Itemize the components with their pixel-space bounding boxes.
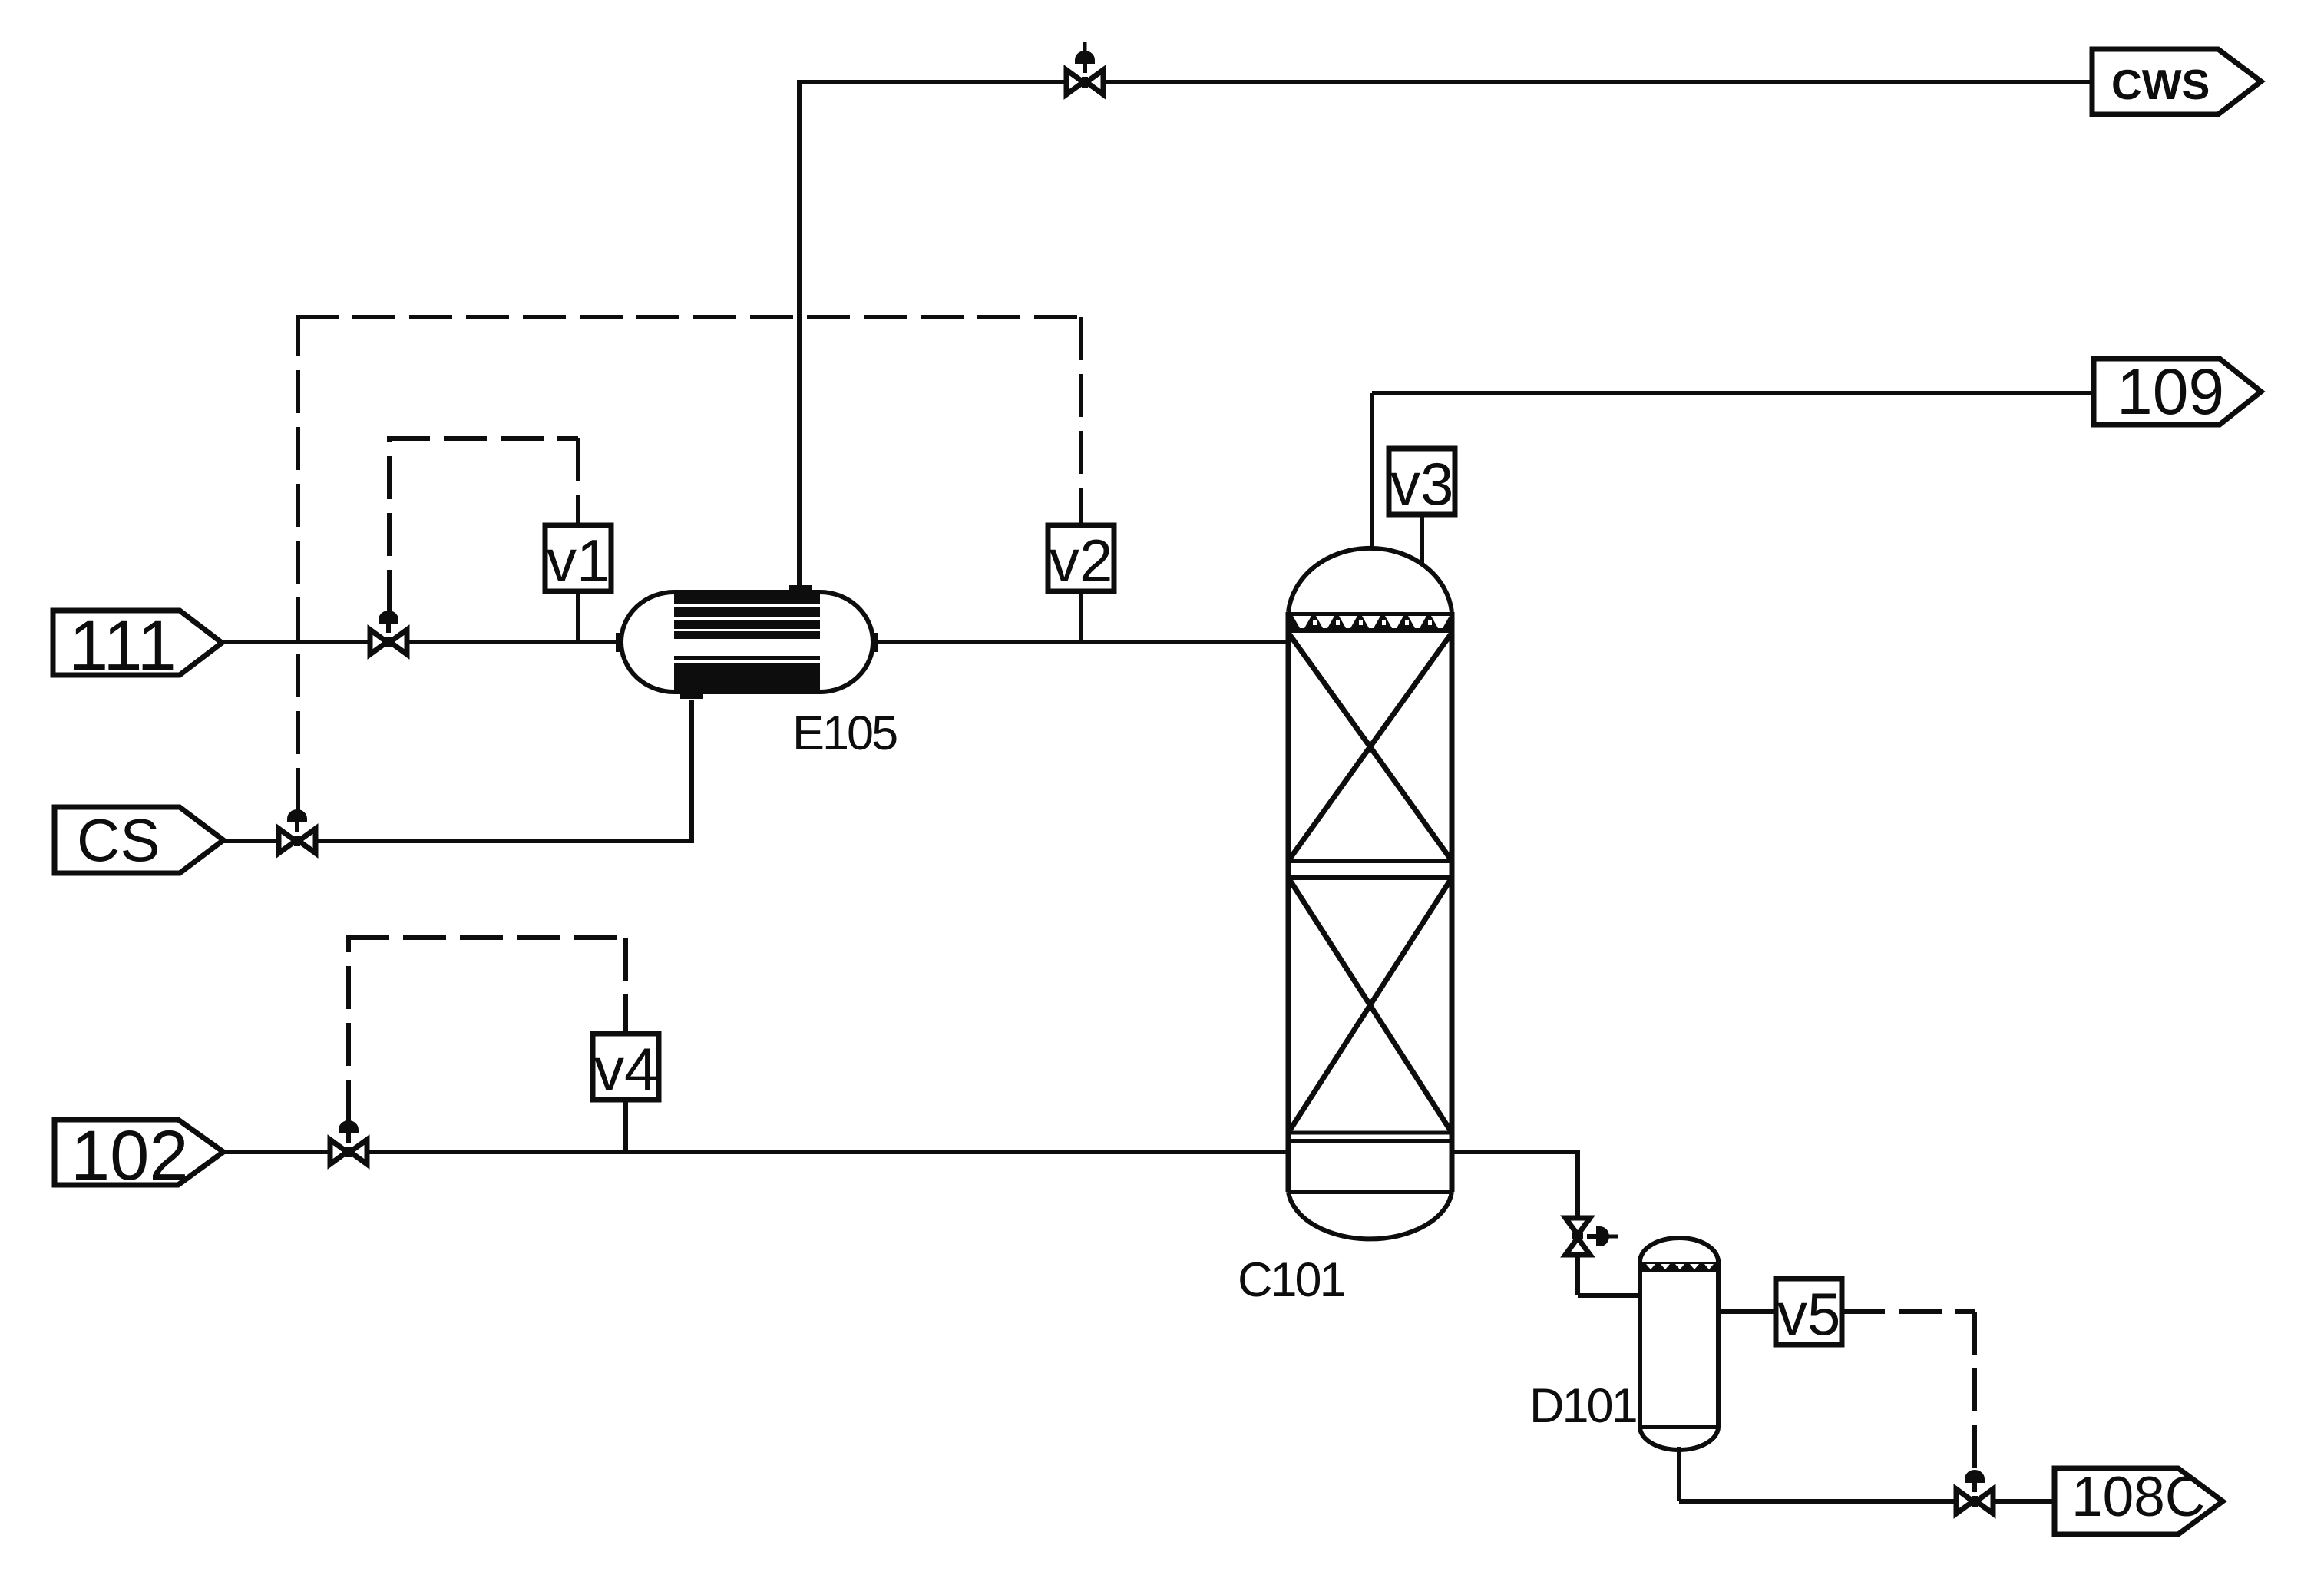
svg-text:111: 111 bbox=[69, 607, 177, 685]
svg-text:v1: v1 bbox=[547, 527, 610, 594]
svg-text:109: 109 bbox=[2117, 356, 2224, 428]
svg-text:CS: CS bbox=[77, 806, 160, 874]
svg-text:108C: 108C bbox=[2071, 1466, 2206, 1528]
svg-text:v3: v3 bbox=[1390, 450, 1453, 518]
svg-text:CWS: CWS bbox=[2111, 61, 2210, 108]
svg-text:v5: v5 bbox=[1777, 1280, 1840, 1348]
svg-text:v4: v4 bbox=[594, 1035, 657, 1103]
svg-text:E105: E105 bbox=[792, 706, 897, 760]
svg-text:102: 102 bbox=[71, 1117, 189, 1195]
svg-text:v2: v2 bbox=[1050, 527, 1112, 594]
svg-text:D101: D101 bbox=[1529, 1379, 1636, 1433]
svg-text:C101: C101 bbox=[1238, 1253, 1344, 1307]
